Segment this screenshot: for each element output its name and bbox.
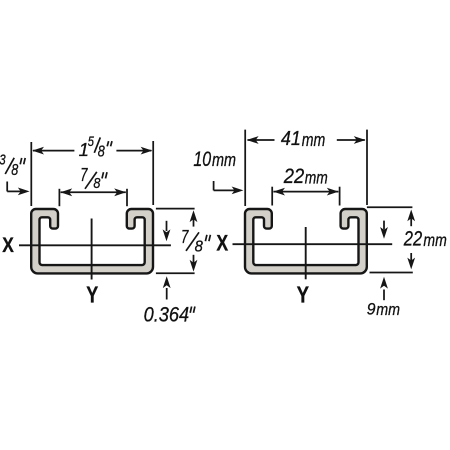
svg-text:0.364: 0.364 bbox=[144, 303, 190, 327]
label 22 mm height bbox=[403, 228, 447, 251]
svg-text:mm: mm bbox=[212, 150, 236, 170]
svg-text:10: 10 bbox=[193, 147, 211, 171]
dimension 1-5/8 inch overall width bbox=[31, 141, 153, 206]
left X axis label bbox=[2, 233, 14, 257]
svg-text:mm: mm bbox=[305, 167, 328, 187]
right X centroid axis bbox=[233, 243, 393, 245]
svg-text:3: 3 bbox=[0, 153, 6, 169]
label 3/8 inch bbox=[0, 153, 25, 179]
svg-text:mm: mm bbox=[302, 130, 326, 150]
svg-text:Y: Y bbox=[86, 282, 98, 308]
arrow 0.364 inch bbox=[163, 276, 171, 299]
dimension 41 mm overall width bbox=[245, 130, 367, 206]
left Y centerline bbox=[91, 219, 93, 280]
label 7/8 inch height bbox=[181, 226, 210, 255]
label 41 mm bbox=[281, 127, 325, 150]
svg-text:41: 41 bbox=[281, 127, 301, 150]
right strut channel profile bbox=[245, 209, 367, 273]
label 9 mm bbox=[367, 300, 400, 320]
leader arrow 3/8 inch bbox=[7, 182, 29, 196]
svg-text:7: 7 bbox=[181, 226, 189, 247]
right X axis label bbox=[216, 230, 228, 255]
label 7/8 inch opening bbox=[80, 165, 107, 192]
dimension 22 mm height bbox=[367, 207, 415, 272]
arrow 9 mm bbox=[380, 277, 388, 300]
right Y axis label bbox=[297, 282, 309, 308]
label 10 mm bbox=[193, 147, 236, 171]
dimension 7/8 inch opening bbox=[59, 188, 127, 206]
svg-text:Y: Y bbox=[297, 282, 309, 308]
centroid axis pointer right figure bbox=[380, 221, 388, 239]
dimension 22 mm opening bbox=[272, 187, 339, 206]
svg-text:7: 7 bbox=[80, 165, 88, 185]
svg-text:5: 5 bbox=[88, 133, 94, 149]
label 22 mm opening bbox=[283, 165, 328, 188]
svg-text:mm: mm bbox=[376, 300, 400, 319]
leader arrow 10 mm bbox=[214, 181, 244, 194]
svg-text:8: 8 bbox=[11, 162, 18, 179]
label 0.364 inch bbox=[144, 303, 195, 327]
svg-text:22: 22 bbox=[283, 165, 305, 188]
dimension 7/8 inch height bbox=[156, 209, 198, 274]
left Y axis label bbox=[86, 282, 98, 308]
svg-text:9: 9 bbox=[367, 300, 376, 319]
left strut channel profile bbox=[31, 209, 153, 273]
svg-text:8: 8 bbox=[195, 238, 203, 255]
svg-text:8: 8 bbox=[98, 143, 105, 160]
svg-text:mm: mm bbox=[423, 230, 446, 250]
centroid axis pointer left figure bbox=[163, 221, 171, 241]
left X centroid axis bbox=[19, 244, 171, 246]
label 1-5/8 inch bbox=[79, 133, 112, 160]
right Y centerline bbox=[305, 227, 307, 279]
svg-text:22: 22 bbox=[403, 228, 422, 251]
svg-text:X: X bbox=[2, 233, 14, 257]
svg-text:X: X bbox=[216, 230, 228, 255]
svg-text:8: 8 bbox=[93, 175, 101, 192]
